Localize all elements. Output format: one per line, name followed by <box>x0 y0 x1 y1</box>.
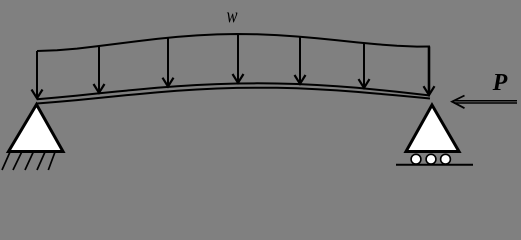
beam top curve <box>37 83 430 99</box>
load arrow 5 <box>299 37 301 83</box>
roller circle 2 <box>426 154 436 164</box>
hatch line 5 <box>48 152 55 170</box>
load arrow 4 <box>237 34 239 82</box>
hatch line 1 <box>2 152 10 170</box>
pin support left triangle <box>9 105 64 152</box>
svg-text:w: w <box>227 3 238 28</box>
hatch line 4 <box>37 152 45 170</box>
svg-text:P: P <box>492 70 508 96</box>
load arrow 7 <box>428 47 431 94</box>
load arrow 6 <box>363 43 365 87</box>
hatch line 3 <box>25 152 33 170</box>
roller circle 3 <box>441 154 451 164</box>
load arrow 3 <box>167 38 169 85</box>
roller ground line <box>396 164 473 166</box>
distributed load top line w <box>37 34 430 51</box>
load arrow 1 <box>36 51 38 97</box>
roller circle 1 <box>411 154 421 164</box>
hatch line 2 <box>13 152 22 170</box>
load arrow 2 <box>98 46 100 92</box>
force P arrow <box>452 96 517 109</box>
roller support right triangle <box>406 105 459 152</box>
beam bottom curve <box>37 88 430 104</box>
